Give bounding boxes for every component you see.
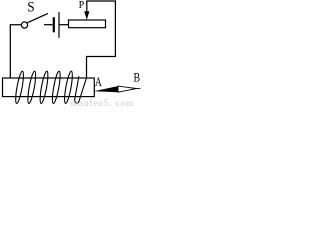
svg-text:S: S (27, 0, 34, 16)
svg-text:B: B (134, 71, 141, 84)
svg-text:P: P (79, 0, 85, 11)
svg-text:manfen5. com: manfen5. com (71, 98, 134, 109)
svg-text:A: A (95, 76, 103, 90)
